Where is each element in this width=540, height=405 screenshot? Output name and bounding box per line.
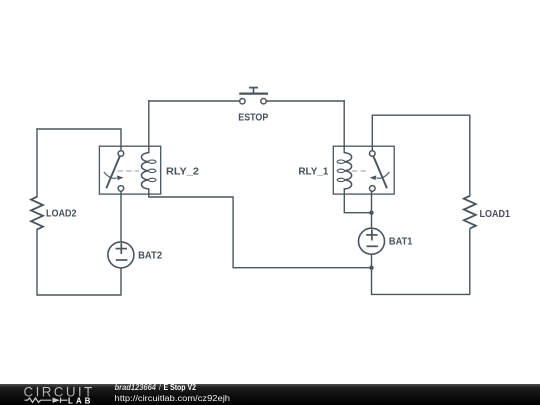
svg-text:BAT1: BAT1 (389, 237, 413, 248)
svg-text:LOAD2: LOAD2 (46, 209, 77, 220)
svg-text:ESTOP: ESTOP (238, 113, 268, 124)
svg-text:brad123664: brad123664 (115, 383, 157, 392)
svg-text:RLY_2: RLY_2 (166, 167, 199, 178)
svg-text:BAT2: BAT2 (138, 250, 162, 261)
svg-text:LAB: LAB (68, 396, 94, 405)
svg-text:E Stop V2: E Stop V2 (164, 383, 197, 392)
svg-text:http://circuitlab.com/cz92ejh: http://circuitlab.com/cz92ejh (115, 393, 231, 403)
svg-text:RLY_1: RLY_1 (298, 167, 328, 178)
svg-text:LOAD1: LOAD1 (480, 209, 511, 220)
